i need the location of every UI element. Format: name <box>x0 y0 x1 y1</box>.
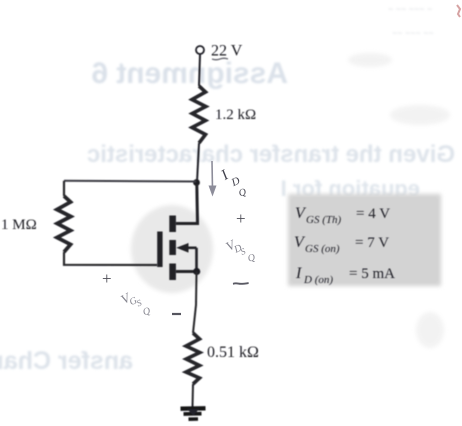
svg-text:= 5 mA: = 5 mA <box>349 266 395 282</box>
current arrow I_DQ <box>209 161 249 199</box>
shaded parameter box <box>288 194 441 286</box>
label I_DQ <box>218 167 249 199</box>
drain lead <box>176 184 198 224</box>
source lead <box>176 270 197 273</box>
svg-text:GS (Th): GS (Th) <box>306 214 341 226</box>
node source junction <box>193 268 200 275</box>
supply terminal 22 V <box>196 46 204 54</box>
svg-text:1.2 kΩ: 1.2 kΩ <box>215 107 256 123</box>
resistor R2 1 MΩ <box>57 196 71 252</box>
resistor R1 1.2 kΩ <box>192 86 206 143</box>
svg-text:1 MΩ: 1 MΩ <box>1 217 37 233</box>
wire substrate to source node <box>195 248 198 272</box>
ghost bleed-through line "equation for I" (mirrored) <box>281 176 420 201</box>
node drain junction <box>193 179 200 186</box>
svg-text:= 7 V: = 7 V <box>355 235 389 251</box>
ghost bleed-through line "Given the transfer characteristic" (mirrored) <box>87 141 455 168</box>
drain channel bar <box>169 216 176 233</box>
resistor R3 0.51 kΩ <box>186 333 200 384</box>
parameter text I_D(on) = 5 mA <box>295 265 395 286</box>
svg-text:~~ ~~~ ~~: ~~ ~~~ ~~ <box>392 28 434 38</box>
ground <box>181 406 206 411</box>
label V_DSQ <box>223 236 257 265</box>
svg-text:+: + <box>102 269 112 288</box>
substrate channel bar <box>169 240 176 255</box>
svg-text:= 4 V: = 4 V <box>356 206 390 222</box>
svg-text:GS (on): GS (on) <box>305 243 340 255</box>
wire source down to R3 <box>193 272 197 334</box>
svg-text:22 V: 22 V <box>211 43 243 60</box>
red mark top-right edge <box>457 5 460 17</box>
faint page smudges <box>348 53 450 348</box>
parameter text V_GS(on) = 7 V <box>294 234 389 255</box>
wire down to R2 <box>63 181 65 196</box>
wire R3 to ground <box>192 384 195 407</box>
svg-text:D (on): D (on) <box>303 274 333 286</box>
ghost bleed-through heading "Assignment 6" (mirrored) <box>91 57 288 90</box>
ghost bleed-through heading "nsfer Chara" bottom-left (mirrored) <box>0 347 133 375</box>
wire supply to R1 <box>199 55 200 87</box>
wire R1 to drain node <box>197 143 199 182</box>
transistor halo <box>131 205 213 293</box>
svg-text:+: + <box>236 209 246 228</box>
source channel bar <box>169 264 176 281</box>
wire R2 bottom to gate <box>64 252 157 265</box>
ghost faint marks top-right <box>388 4 434 38</box>
parameter text V_GS(Th) = 4 V <box>295 205 390 226</box>
svg-text:ansfer Chara: ansfer Chara <box>0 347 133 375</box>
wire drain node to left (feedback) <box>64 180 196 183</box>
minus sign V_DSQ <box>233 282 249 285</box>
label V_GSQ <box>118 289 152 318</box>
svg-text:0.51 kΩ: 0.51 kΩ <box>207 344 259 361</box>
svg-text:Assignment 6: Assignment 6 <box>91 57 288 90</box>
svg-text:Given the transfer characteris: Given the transfer characteristic <box>87 141 455 168</box>
gate bar <box>157 232 162 268</box>
minus sign V_GSQ <box>172 313 181 315</box>
svg-text:I: I <box>295 265 302 282</box>
substrate arrow <box>183 247 197 250</box>
svg-text:~ ~~ ~~~ ~: ~ ~~ ~~~ ~ <box>388 4 432 14</box>
